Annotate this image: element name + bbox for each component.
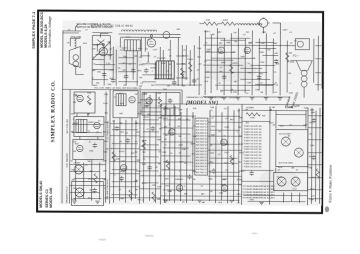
svg-text:5M: 5M [309,156,312,158]
svg-text:8MF: 8MF [206,51,211,53]
svg-text:.FC—: .FC— [292,54,299,58]
svg-text:1MF: 1MF [239,117,244,119]
ground [197,200,201,202]
svg-text:[MODEL SW]: [MODEL SW] [186,100,218,106]
ground [95,201,99,203]
svg-text:25M: 25M [197,48,201,50]
tube V2 [147,35,155,47]
svg-text:25M: 25M [233,92,237,94]
page border frame [37,11,323,213]
svg-text:5M: 5M [135,152,138,154]
svg-text:10M: 10M [142,164,146,166]
svg-text:456KC: 456KC [73,123,80,125]
svg-text:25M: 25M [104,94,108,96]
svg-text:.5M: .5M [139,86,143,88]
wire right column rail [315,36,321,91]
wire driver unit [142,92,180,115]
tube V9 [77,145,83,151]
svg-text:6D6 250V 3.2: 6D6 250V 3.2 [196,129,208,131]
svg-text:©John F. Rider, Publisher: ©John F. Rider, Publisher [329,164,333,203]
tube socket V22 [277,177,286,186]
svg-text:1MF: 1MF [178,110,183,112]
svg-text:.0001: .0001 [220,184,226,186]
svg-text:.5M: .5M [152,185,156,187]
wire C3 horizontals [161,116,242,196]
ground [229,200,233,202]
tube V1 [99,43,107,55]
capacitor C7 [192,78,196,83]
wire top bus [92,33,180,38]
svg-text:1MF: 1MF [240,56,245,58]
svg-text:.0001: .0001 [178,145,184,147]
capacitor C12 [93,143,97,148]
svg-text:1MF: 1MF [311,112,316,114]
tube socket V20 [281,137,290,146]
svg-text:.0001: .0001 [221,62,227,64]
resistor R6 [230,64,233,74]
resistor R8b [158,97,161,107]
wire speaker leads [290,39,314,98]
svg-text:6.3V: 6.3V [293,189,298,191]
label row above divider [94,88,142,90]
box: det unit [73,139,104,159]
svg-text:I.F.456: I.F.456 [74,162,81,164]
svg-text:PLATE 250 SCR 100: PLATE 250 SCR 100 [244,154,262,157]
paper scan wash [60,20,323,205]
svg-text:5M: 5M [103,131,106,133]
svg-text:1MF: 1MF [310,145,315,147]
svg-text:25M: 25M [110,69,114,71]
capacitor C10 [257,75,261,80]
svg-text:.0001: .0001 [137,48,143,50]
wire horizontals left half [92,45,197,86]
tuning gang arrow [92,42,110,60]
resistor R14 [166,160,169,170]
capacitor C19 [147,165,151,170]
svg-text:25M: 25M [88,103,92,105]
label fc [292,54,299,58]
svg-text:PLATE 250 SCR 100: PLATE 250 SCR 100 [244,157,262,160]
choke coil L2 [238,24,249,26]
wire C2b verticals [144,92,157,203]
svg-text:25M: 25M [289,92,293,94]
svg-text:2M: 2M [288,73,291,75]
svg-text:PLATE 250 SCR 100: PLATE 250 SCR 100 [244,139,262,142]
svg-text:PLATE 250 SCR 100: PLATE 250 SCR 100 [244,134,262,137]
svg-text:6D6 250V 3.2: 6D6 250V 3.2 [196,142,208,144]
wire C1 verticals [76,91,107,202]
svg-text:1MF: 1MF [89,171,94,173]
svg-text:6D6 250V 3.2: 6D6 250V 3.2 [196,169,208,171]
svg-text:.5M: .5M [159,175,163,177]
box: driver unit [142,92,180,115]
speaker SP2 cone [296,61,312,71]
tube socket V11 [75,188,84,197]
svg-text:456KC: 456KC [88,122,95,124]
component value labels top [93,17,299,92]
svg-text:6D6 250V 3.2: 6D6 250V 3.2 [196,157,208,159]
wire verticals right half [205,28,287,95]
svg-text:2M: 2M [291,168,294,170]
capacitor C18 [151,126,155,131]
svg-text:2M: 2M [159,129,162,131]
svg-text:25M: 25M [210,107,214,109]
resistor R1 [180,68,183,78]
svg-text:6D6 250V 3.2: 6D6 250V 3.2 [196,136,208,138]
svg-text:110V: 110V [224,152,229,154]
labels inside socket boxes [277,134,298,191]
wire C3 verticals [165,106,240,203]
resistor R15 [246,113,260,116]
ground [259,202,263,204]
box: IF unit [74,116,104,136]
svg-text:ANTENNA COIL OSC. COIL: ANTENNA COIL OSC. COIL I.F. 456 KC [90,25,133,28]
svg-text:2M: 2M [93,49,96,51]
power transformer T0 [156,61,174,79]
svg-text:5M: 5M [238,162,241,164]
resistor R10 [129,190,132,200]
svg-text:10M: 10M [87,93,91,95]
svg-text:1MF: 1MF [192,136,197,138]
svg-text:ANT COIL 456: ANT COIL 456 [66,118,69,133]
labels: middle band designators [72,93,316,201]
resistor R16 [316,169,319,179]
svg-text:.5M: .5M [233,32,237,34]
label: power caption handwritten [285,104,300,110]
svg-text:110V: 110V [153,50,158,52]
svg-text:.0001: .0001 [309,189,315,191]
svg-text:250M: 250M [187,59,193,61]
svg-text:.0001: .0001 [165,185,171,187]
tube V16 [169,129,175,135]
resistor R4 [221,22,235,25]
svg-text:A.V.C.: A.V.C. [142,182,148,185]
svg-text:110V: 110V [122,48,127,50]
svg-text:OPERATING VOLTAGES MEASURED TO: OPERATING VOLTAGES MEASURED TO CHASSIS [186,96,238,99]
svg-text:50M: 50M [73,94,77,96]
svg-text:5M: 5M [178,136,181,138]
svg-text:.5M: .5M [271,107,275,109]
tube V13 [120,164,126,170]
svg-text:25M: 25M [157,93,161,95]
svg-text:1MF: 1MF [103,161,108,163]
svg-text:1MF: 1MF [123,56,128,58]
oscillator coil row [121,30,132,32]
svg-text:110V: 110V [197,85,202,87]
svg-text:15M: 15M [205,20,209,22]
svg-text:8MF: 8MF [157,140,162,142]
tube V4 rectifier [259,19,268,28]
wire speaker tail [70,38,84,74]
capacitor C22 [249,171,253,176]
resistor R3 [203,22,217,25]
svg-text:110V: 110V [103,103,108,105]
svg-text:SPEAKER PLUG: SPEAKER PLUG [66,186,69,203]
svg-text:2M: 2M [245,110,248,112]
svg-text:PLATE 250 SCR 100: PLATE 250 SCR 100 [244,148,262,151]
svg-text:DET: DET [141,146,146,148]
svg-text:1M: 1M [125,133,128,135]
svg-text:1MF: 1MF [262,32,267,34]
svg-text:.5M: .5M [234,41,238,43]
svg-text:456KC: 456KC [239,171,246,173]
svg-text:VOLTAGES MEASURED AT SOCKET: VOLTAGES MEASURED AT SOCKET [243,185,276,188]
svg-text:POWER: POWER [157,58,166,60]
svg-text:50M: 50M [260,52,264,54]
capacitor C9 [274,59,278,64]
wire extra mid fills [72,119,240,200]
svg-text:2M: 2M [267,49,270,51]
wire ground bus right [203,96,290,98]
svg-text:.5M: .5M [72,151,76,153]
label ant [70,36,82,39]
svg-text:5M: 5M [135,94,138,96]
tube V6 [244,47,250,53]
svg-text:456KC: 456KC [139,64,146,66]
speaker SP1 [69,46,80,67]
tube V14b [146,98,152,104]
svg-text:.5M: .5M [73,102,77,104]
svg-text:LINE: LINE [250,117,255,119]
tuning condenser C8 [97,34,108,46]
svg-text:6D6 250V 3.2: 6D6 250V 3.2 [196,163,208,165]
wire: divider x308 [307,108,310,205]
svg-text:5M: 5M [72,180,75,182]
svg-text:1MF: 1MF [143,140,148,142]
svg-text:10M: 10M [192,171,196,173]
svg-text:.0001: .0001 [239,152,245,154]
capacitor C20 [211,168,215,173]
margin label: model list bottom [39,181,53,208]
capacitor C21 [187,174,191,179]
wire: band top rule right [242,103,322,105]
svg-text:6D6 250V 3.2: 6D6 250V 3.2 [196,160,208,162]
labels: left edge rotated [66,118,110,203]
ground [264,98,268,100]
tube V7 [77,95,83,101]
svg-text:5M: 5M [237,110,240,112]
svg-text:VOLUME CONTROL: VOLUME CONTROL [107,178,109,199]
capacitor C14 [115,126,119,131]
ground [236,97,240,99]
svg-text:6D6 250V 3.2: 6D6 250V 3.2 [196,154,208,156]
svg-text:456KC: 456KC [88,179,95,181]
capacitor C6 [172,80,176,85]
wire horizontals right half [203,40,290,85]
svg-text:2M: 2M [246,32,249,34]
svg-text:10M: 10M [182,149,186,151]
tube V18 [176,185,182,191]
svg-text:6D6 250V 3.2: 6D6 250V 3.2 [196,172,208,174]
svg-text:456KC: 456KC [232,63,239,65]
capacitor C11 [222,74,226,79]
svg-text:110V: 110V [144,117,149,119]
wire C4 horizontals [242,110,308,201]
IF transformer T7 [76,119,87,132]
svg-text:.0001: .0001 [157,117,163,119]
field coil circles [73,55,79,61]
tube V5 [218,47,224,53]
capacitor C13b [168,98,172,103]
svg-text:.5M: .5M [260,92,264,94]
resistor R5 [286,53,289,63]
tube V8 [94,122,100,128]
svg-text:.5M: .5M [309,133,313,135]
output box [295,39,309,50]
svg-text:.5M: .5M [134,189,138,191]
field coil L3 [301,70,307,76]
svg-text:8MF: 8MF [273,43,278,45]
svg-text:6D6 250V 3.2: 6D6 250V 3.2 [196,145,208,147]
wire: divider x62 [61,89,64,203]
capacitor C16 [119,176,123,181]
svg-text:50M: 50M [247,82,251,84]
svg-text:6D6 250V 3.2: 6D6 250V 3.2 [196,120,208,122]
svg-text:50M: 50M [136,160,140,162]
faint smudge marks below border [98,232,257,242]
label: MODEL SW handwritten [186,96,238,106]
socket box B1 [276,130,308,167]
antenna lead-in [63,24,81,33]
label: operating voltage table [243,125,276,200]
wire: divider x182 [181,90,183,104]
svg-text:PLATE 250 SCR 100: PLATE 250 SCR 100 [244,163,262,166]
tube socket V10 [74,165,83,174]
capacitor C15 [126,138,130,143]
svg-text:OSC PADDER: OSC PADDER [66,153,69,168]
svg-text:50M: 50M [108,55,112,57]
svg-text:5M: 5M [219,71,222,73]
svg-text:PLATE 250 SCR 100: PLATE 250 SCR 100 [244,142,262,145]
svg-text:MODELS SW,40: MODELS SW,40 [39,181,43,208]
wire: band top rule left [62,88,182,91]
svg-text:456KC: 456KC [119,151,126,153]
svg-text:25M: 25M [289,107,293,109]
antenna coil [74,37,76,48]
wire C5 verticals [312,108,321,204]
svg-text:2M: 2M [192,179,195,181]
wire C1 horizontals [70,164,106,198]
socket box B2 [274,172,308,190]
svg-text:8MF: 8MF [120,198,125,200]
svg-text:VOLTAGES MEASURED AT SOCKET: VOLTAGES MEASURED AT SOCKET [243,196,276,199]
svg-text:BOTTOM VIEW: BOTTOM VIEW [279,163,293,165]
xfmr hatch [116,94,126,106]
svg-text:VOLTAGES MEASURED AT SOCKET: VOLTAGES MEASURED AT SOCKET [243,191,276,194]
svg-text:25M: 25M [104,198,108,200]
wire: divider x242 [241,104,244,204]
coupling box P1 [124,40,140,51]
svg-text:GND: GND [168,191,173,193]
capacitor C3 [124,74,128,79]
svg-text:6MF: 6MF [210,34,215,36]
capacitor C4 [131,68,135,73]
svg-text:5M: 5M [119,123,122,125]
labels: speckle annotations [66,29,316,204]
resistor R2 [189,62,192,72]
capacitor C17 [145,102,149,107]
svg-text:2M: 2M [309,168,312,170]
svg-text:.5M: .5M [230,159,234,161]
svg-text:8MF: 8MF [157,199,162,201]
tube V19 [221,185,227,191]
svg-text:456KC: 456KC [182,56,189,58]
svg-text:PLATE 250 SCR 100: PLATE 250 SCR 100 [244,151,262,154]
svg-text:2M: 2M [106,149,109,151]
svg-text:GND: GND [250,199,255,201]
svg-text:F.C.: F.C. [294,41,298,43]
svg-text:Schematics,Voltage: Schematics,Voltage [48,16,52,48]
label: voltage table rows [196,120,208,174]
svg-text:450V: 450V [282,30,288,32]
svg-text:50M: 50M [107,84,111,86]
ground [163,200,167,202]
svg-text:5M: 5M [238,127,241,129]
wire: divider x70 [69,89,72,203]
svg-text:PLATE 250 SCR 100: PLATE 250 SCR 100 [244,136,262,139]
capacitor C24 [312,155,316,160]
svg-text:PLATE 250 SCR 100: PLATE 250 SCR 100 [244,145,262,148]
svg-text:.0001: .0001 [289,62,295,64]
svg-text:110V: 110V [157,186,162,188]
svg-text:456KC: 456KC [136,171,143,173]
ground [278,98,282,100]
svg-text:.0001: .0001 [163,118,169,120]
svg-text:25M: 25M [89,151,93,153]
wire extra cross segments [95,38,279,177]
box: RF unit [74,92,95,113]
svg-text:25M: 25M [205,77,209,79]
svg-text:PLATE 250 SCR 100: PLATE 250 SCR 100 [244,125,262,128]
svg-text:50M: 50M [225,144,229,146]
label: control caption [76,23,113,29]
resistor R9 [112,152,115,162]
label: speaker field note [284,91,299,109]
svg-text:1MF: 1MF [167,78,172,80]
svg-text:110V: 110V [125,37,130,39]
svg-text:SIMPLEX RADIO CO.: SIMPLEX RADIO CO. [50,80,56,143]
resistor R8 [94,174,97,184]
svg-text:10M: 10M [260,43,264,45]
label: caption row2 [90,25,133,28]
svg-text:50M: 50M [208,179,212,181]
svg-text:456KC: 456KC [237,179,244,181]
svg-text:25M: 25M [260,62,264,64]
svg-text:PLATE 250 SCR 100: PLATE 250 SCR 100 [244,165,262,168]
svg-text:2M: 2M [139,77,142,79]
capacitor C23 [312,118,316,123]
svg-text:1MF: 1MF [138,57,143,59]
wire C5 horizontals [308,116,322,199]
svg-text:SIMPLEX PAGE 7-1: SIMPLEX PAGE 7-1 [31,11,36,49]
svg-text:50M: 50M [71,113,75,115]
svg-text:.0001: .0001 [104,122,110,124]
svg-text:2M: 2M [87,114,90,116]
svg-text:1MF: 1MF [190,143,195,145]
svg-text:6D6 250V 3.2: 6D6 250V 3.2 [196,139,208,141]
svg-text:.0001: .0001 [224,127,230,129]
wire C2 verticals [114,118,136,203]
wire: divider x161 [161,104,243,205]
svg-text:6D6 250V 3.2: 6D6 250V 3.2 [196,126,208,128]
svg-text:6D6 250V 3.2: 6D6 250V 3.2 [196,123,208,125]
svg-text:5M: 5M [87,161,90,163]
box: osc unit [113,91,138,118]
resistor R13 [230,155,233,165]
resistor R11 [142,140,145,150]
margin label: model list top [40,11,52,47]
ground [209,97,213,99]
